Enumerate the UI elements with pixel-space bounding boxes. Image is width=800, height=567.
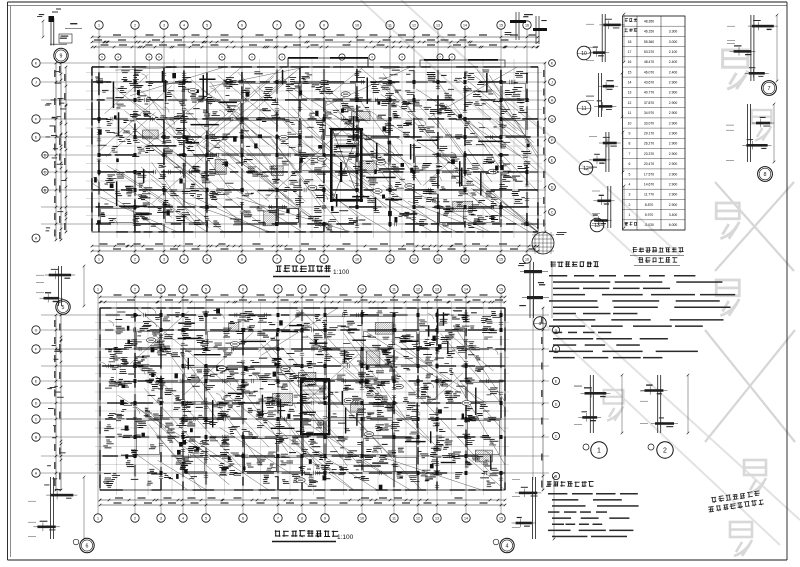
detail circle 13 bbox=[590, 218, 604, 232]
svg-text:7: 7 bbox=[277, 516, 279, 520]
bottom plan slab diagonals bbox=[118, 308, 506, 490]
svg-text:5: 5 bbox=[206, 257, 208, 261]
bottom plan right axis line bbox=[532, 300, 534, 480]
svg-text:11: 11 bbox=[388, 23, 392, 27]
bottom plan dimension chains (bottom) bbox=[100, 499, 505, 501]
svg-text:1: 1 bbox=[97, 516, 99, 520]
top plan dimension chain (right) bbox=[544, 63, 546, 232]
bottom plan interior shear walls bbox=[102, 308, 505, 490]
svg-text:C: C bbox=[44, 170, 47, 174]
bottom plan stair core (dark walls) bbox=[300, 378, 330, 435]
svg-text:15: 15 bbox=[499, 287, 503, 291]
svg-text:15: 15 bbox=[499, 23, 503, 27]
svg-text:6: 6 bbox=[242, 516, 244, 520]
bottom plan axis bubbles (bottom row) bbox=[94, 514, 102, 522]
svg-text:G: G bbox=[551, 117, 554, 121]
bottom plan columns bbox=[120, 309, 502, 491]
bottom-right sheet caption (two lines, tilted) bbox=[707, 490, 764, 513]
svg-text:9: 9 bbox=[324, 516, 326, 520]
detail circle 11 bbox=[577, 101, 591, 115]
svg-text:16: 16 bbox=[525, 23, 529, 27]
svg-text:C: C bbox=[555, 434, 558, 438]
bottom plan oval tags bbox=[147, 338, 472, 483]
svg-text:3: 3 bbox=[160, 516, 162, 520]
svg-text:3: 3 bbox=[163, 23, 165, 27]
svg-text:7: 7 bbox=[276, 23, 278, 27]
svg-text:H: H bbox=[551, 98, 554, 102]
top plan interior shear walls bbox=[92, 68, 538, 232]
svg-text:4: 4 bbox=[182, 287, 184, 291]
watermark X mark right lower bbox=[705, 330, 795, 442]
svg-text:7: 7 bbox=[277, 287, 279, 291]
structural notes block 1 text lines bbox=[549, 275, 735, 358]
svg-text:13: 13 bbox=[435, 516, 439, 520]
svg-text:13: 13 bbox=[436, 23, 440, 27]
left mid axis bubble A bbox=[32, 234, 40, 242]
svg-text:16: 16 bbox=[525, 257, 529, 261]
svg-text:10: 10 bbox=[360, 287, 364, 291]
top plan axis grid lines bbox=[41, 30, 546, 255]
bottom plan axis grid lines bbox=[41, 294, 549, 514]
svg-text:10: 10 bbox=[355, 23, 359, 27]
svg-text:9: 9 bbox=[324, 287, 326, 291]
bottom plan outer walls bbox=[99, 307, 505, 490]
svg-text:10: 10 bbox=[355, 257, 359, 261]
svg-text:C: C bbox=[551, 210, 554, 214]
svg-text:G: G bbox=[35, 328, 38, 332]
svg-text:14: 14 bbox=[463, 23, 467, 27]
svg-text:1:100: 1:100 bbox=[333, 269, 350, 276]
bottom plan hatch patches bbox=[228, 323, 492, 462]
top plan hatch patches bbox=[143, 112, 473, 226]
top plan sub-axis bubbles row bbox=[99, 54, 105, 60]
svg-text:5: 5 bbox=[205, 516, 207, 520]
bottom plan annotation text clusters bbox=[103, 310, 501, 487]
bottom plan dimension chains (left) bbox=[55, 315, 57, 490]
top plan title bbox=[273, 265, 350, 276]
svg-text:12: 12 bbox=[412, 257, 416, 261]
frame border bbox=[7, 2, 9, 560]
svg-text:14: 14 bbox=[464, 287, 468, 291]
svg-text:4: 4 bbox=[182, 516, 184, 520]
watermark glyph 2 bbox=[716, 203, 739, 239]
bottom plan axis bubbles (top row) bbox=[94, 285, 102, 293]
svg-text:15: 15 bbox=[499, 516, 503, 520]
left margin annotation marks (top plan) bbox=[44, 71, 66, 485]
svg-text:1: 1 bbox=[97, 287, 99, 291]
svg-text:6: 6 bbox=[241, 257, 243, 261]
top plan door arcs bbox=[93, 74, 484, 225]
svg-text:8: 8 bbox=[301, 516, 303, 520]
detail circle 1 bbox=[591, 442, 607, 458]
svg-text:5: 5 bbox=[205, 287, 207, 291]
detail 9 drawing (top-left corner) bbox=[37, 9, 82, 46]
top plan axis bubbles (top row) bbox=[95, 21, 103, 29]
watermark glyph 7 bbox=[604, 390, 624, 421]
detail circle 2 bbox=[657, 442, 673, 458]
detail circle 5 bbox=[56, 300, 70, 314]
structural notes block 1 title bbox=[550, 261, 598, 267]
svg-text:4: 4 bbox=[183, 257, 185, 261]
svg-text:2: 2 bbox=[134, 516, 136, 520]
svg-text:4: 4 bbox=[183, 23, 185, 27]
detail circle 12 bbox=[579, 161, 593, 175]
svg-text:1: 1 bbox=[98, 257, 100, 261]
svg-text:9: 9 bbox=[323, 257, 325, 261]
bottom plan dimension chains (top) bbox=[100, 296, 505, 298]
svg-text:11: 11 bbox=[392, 516, 396, 520]
detail circle 7 bbox=[762, 81, 777, 96]
top plan upper bump walls bbox=[288, 57, 505, 67]
svg-text:1: 1 bbox=[98, 23, 100, 27]
floor elevation table bbox=[623, 16, 686, 230]
bottom plan room outlines bbox=[137, 317, 500, 472]
top plan annotation text clusters bbox=[95, 70, 531, 231]
small detail group above plan right bbox=[505, 12, 547, 44]
svg-text:J: J bbox=[35, 80, 37, 84]
svg-text:J: J bbox=[551, 80, 553, 84]
bottom plan axis bubbles (left column) bbox=[32, 326, 40, 334]
svg-text:13: 13 bbox=[435, 287, 439, 291]
svg-text:12: 12 bbox=[416, 287, 420, 291]
svg-text:8: 8 bbox=[301, 287, 303, 291]
svg-text:6: 6 bbox=[242, 287, 244, 291]
top plan dimension chains (top) bbox=[92, 36, 538, 38]
structural notes block 2 text lines bbox=[548, 493, 639, 537]
detail circle 10 bbox=[577, 46, 591, 60]
watermark glyph 6 bbox=[730, 522, 752, 556]
detail circle 3 bbox=[534, 317, 547, 330]
bottom plan title bbox=[272, 530, 354, 542]
svg-text:C: C bbox=[35, 417, 38, 421]
watermark X mark right upper bbox=[705, 182, 795, 442]
svg-text:D: D bbox=[44, 153, 47, 157]
svg-text:11: 11 bbox=[388, 257, 392, 261]
svg-text:9: 9 bbox=[323, 23, 325, 27]
svg-text:13: 13 bbox=[436, 257, 440, 261]
bottom plan dimension chain (right) bbox=[542, 308, 544, 490]
svg-text:5: 5 bbox=[206, 23, 208, 27]
detail circle 6 bbox=[80, 538, 94, 552]
detail 3 drawing bbox=[518, 262, 552, 318]
svg-text:14: 14 bbox=[464, 516, 468, 520]
top plan axis bubbles (bottom row) bbox=[95, 255, 103, 263]
top plan opening ticks bbox=[97, 73, 529, 227]
svg-text:2: 2 bbox=[134, 287, 136, 291]
watermark glyph 1 bbox=[723, 50, 748, 89]
svg-text:14: 14 bbox=[463, 257, 467, 261]
svg-text:D: D bbox=[555, 402, 558, 406]
table caption bbox=[630, 247, 684, 265]
bottom plan opening ticks bbox=[108, 313, 503, 487]
top plan oval tags bbox=[188, 89, 497, 194]
top plan dimension chains (left) bbox=[55, 63, 57, 240]
detail circle 9 bbox=[54, 48, 68, 62]
top plan axis bubbles (left column) bbox=[32, 59, 40, 67]
detail circle 4 bbox=[500, 538, 514, 552]
svg-text:7: 7 bbox=[276, 257, 278, 261]
watermark glyph 4 bbox=[716, 280, 739, 316]
pile cap detail (hatched circle) bbox=[532, 232, 567, 254]
top plan outer walls bbox=[91, 66, 539, 233]
svg-text:3: 3 bbox=[163, 257, 165, 261]
top plan axis bubbles (right column) bbox=[549, 60, 556, 67]
svg-text:2: 2 bbox=[134, 257, 136, 261]
top plan room outlines bbox=[101, 84, 526, 223]
svg-text:D: D bbox=[551, 185, 554, 189]
watermark glyph 5 bbox=[744, 460, 766, 494]
structural notes block 2 title bbox=[546, 481, 594, 487]
svg-text:8: 8 bbox=[299, 257, 301, 261]
svg-text:11: 11 bbox=[392, 287, 396, 291]
svg-text:12: 12 bbox=[416, 516, 420, 520]
bottom plan axis bubbles (right column) bbox=[552, 326, 559, 333]
svg-text:3: 3 bbox=[160, 287, 162, 291]
svg-text:10: 10 bbox=[360, 516, 364, 520]
top plan stair core (dark walls) bbox=[330, 128, 363, 202]
svg-text:6: 6 bbox=[241, 23, 243, 27]
svg-text:2: 2 bbox=[134, 23, 136, 27]
bottom plan door arcs bbox=[101, 308, 498, 457]
svg-text:8: 8 bbox=[299, 23, 301, 27]
svg-text:D: D bbox=[35, 401, 38, 405]
top plan slab diagonals bbox=[93, 67, 538, 232]
top plan columns bbox=[94, 73, 529, 226]
watermark glyph 3 bbox=[752, 110, 772, 141]
detail circle 8 bbox=[758, 167, 773, 182]
top plan dimension chains (bottom) bbox=[92, 245, 538, 247]
svg-text:12: 12 bbox=[412, 23, 416, 27]
watermark diagonal band top right bbox=[350, 0, 800, 545]
svg-text:15: 15 bbox=[499, 257, 503, 261]
